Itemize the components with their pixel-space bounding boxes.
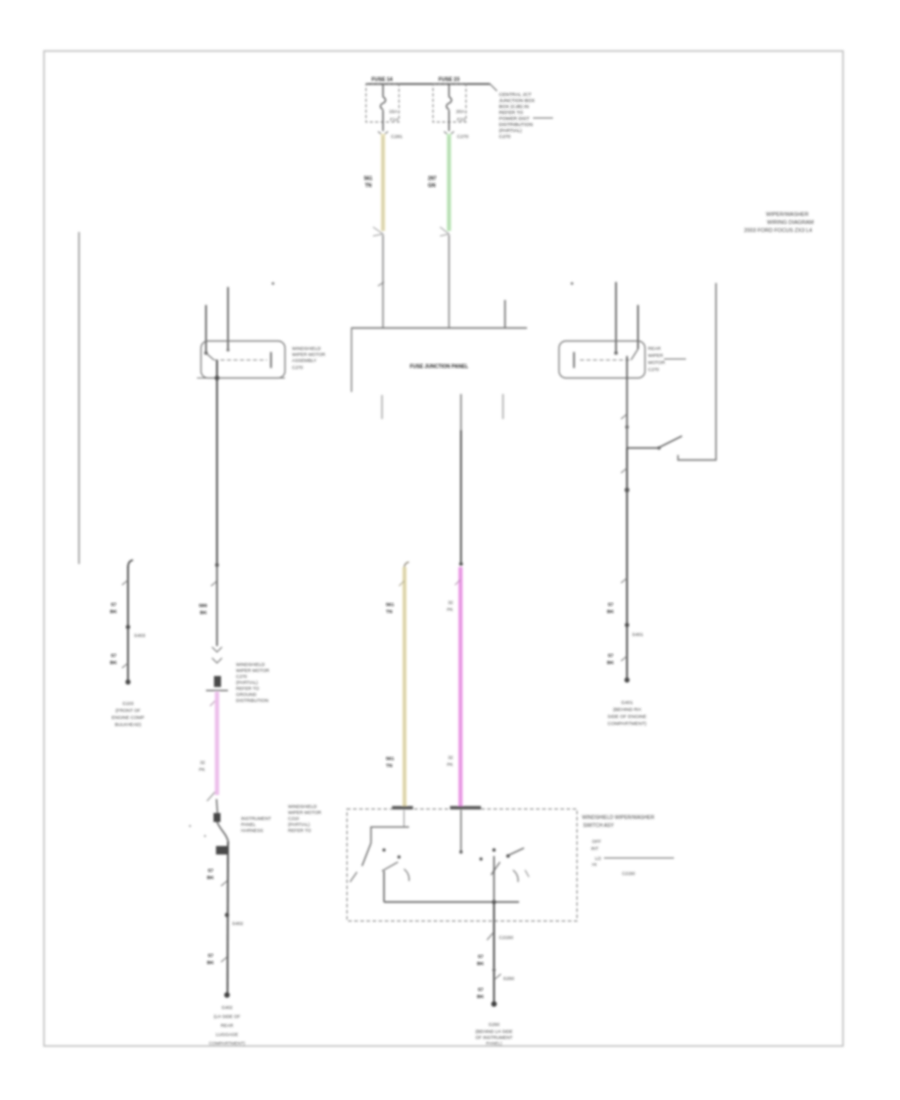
svg-text:S402: S402	[232, 921, 244, 927]
svg-text:WIPER/WASHER: WIPER/WASHER	[766, 212, 809, 218]
motor: windshield wiper motor left	[201, 341, 285, 378]
svg-text:WIPER MOTOR: WIPER MOTOR	[292, 352, 326, 357]
svg-text:57: 57	[478, 987, 484, 993]
svg-text:C270: C270	[236, 674, 247, 679]
svg-text:COMPARTMENT): COMPARTMENT)	[608, 721, 647, 727]
svg-text:BK: BK	[477, 961, 484, 967]
wire: TN wire from fuse F14	[364, 134, 383, 231]
svg-text:C2150: C2150	[622, 871, 635, 876]
tick	[621, 414, 627, 419]
wire markings on right ground run	[607, 578, 644, 683]
svg-text:32: 32	[448, 600, 454, 605]
svg-text:COMPARTMENT): COMPARTMENT)	[209, 1041, 246, 1046]
svg-text:F14: F14	[390, 117, 399, 123]
svg-text:589: 589	[199, 603, 207, 609]
fuse F14	[366, 77, 399, 131]
wire: left motor output with junction	[197, 360, 285, 646]
svg-text:(FRONT OF: (FRONT OF	[116, 708, 141, 713]
svg-text:CENTRAL JCT: CENTRAL JCT	[499, 92, 531, 98]
wire: park switch return tall line	[678, 283, 716, 460]
label: page title right	[744, 212, 814, 234]
svg-text:G103: G103	[122, 701, 134, 706]
label: wiper motor partial note	[288, 804, 322, 833]
switch internals: right wafer	[459, 810, 529, 902]
svg-text:C270: C270	[499, 134, 511, 140]
svg-text:G401: G401	[621, 700, 633, 706]
svg-text:BK: BK	[477, 994, 484, 1000]
svg-text:FUSE 23: FUSE 23	[438, 77, 459, 83]
svg-text:C270: C270	[457, 134, 469, 140]
svg-text:SIDE OF ENGINE: SIDE OF ENGINE	[608, 714, 647, 720]
svg-text:(LH SIDE OF: (LH SIDE OF	[214, 1014, 241, 1019]
svg-text:BK: BK	[607, 660, 614, 666]
svg-text:(PARTIAL): (PARTIAL)	[288, 822, 310, 827]
svg-text:WINDSHIELD: WINDSHIELD	[292, 346, 322, 351]
fuse F23	[433, 77, 466, 131]
wire: long left reference line	[78, 232, 80, 564]
svg-text:ASSEMBLY: ASSEMBLY	[292, 358, 316, 363]
svg-text:LO: LO	[595, 856, 602, 861]
svg-text:WINDSHIELD WIPER/WASHER: WINDSHIELD WIPER/WASHER	[582, 815, 655, 821]
svg-text:G250: G250	[488, 1022, 500, 1027]
svg-text:OFF: OFF	[592, 839, 601, 844]
label: central junction box note	[499, 92, 553, 140]
ground G401	[608, 700, 647, 727]
svg-text:REFER TO: REFER TO	[499, 110, 523, 116]
svg-text:INSTRUMENT: INSTRUMENT	[241, 816, 271, 821]
svg-text:32: 32	[448, 755, 454, 760]
svg-text:SWITCH ASY: SWITCH ASY	[583, 823, 615, 829]
wire: bus lead-in to CJB label	[490, 84, 497, 91]
module: fuse junction panel top line	[351, 300, 527, 392]
svg-text:WIPER MOTOR: WIPER MOTOR	[288, 810, 322, 815]
svg-text:FUSE JUNCTION PANEL: FUSE JUNCTION PANEL	[410, 364, 468, 370]
svg-text:PK: PK	[447, 762, 453, 767]
svg-text:57: 57	[208, 868, 214, 874]
wire: switch ground output	[477, 902, 515, 1007]
svg-text:2003 FORD FOCUS ZX3 L4: 2003 FORD FOCUS ZX3 L4	[744, 228, 812, 234]
svg-text:15A: 15A	[389, 109, 398, 115]
svg-text:REFER TO: REFER TO	[236, 686, 259, 691]
switch internals: left wafer	[350, 810, 409, 882]
svg-text:57: 57	[478, 954, 484, 960]
svg-text:WIRING DIAGRAM: WIRING DIAGRAM	[767, 220, 814, 226]
svg-text:PK: PK	[447, 607, 453, 612]
svg-text:WIPER: WIPER	[648, 353, 664, 358]
svg-text:PANEL: PANEL	[241, 822, 256, 827]
svg-text:POWER DIST: POWER DIST	[499, 116, 529, 122]
svg-text:57: 57	[208, 953, 214, 959]
switch internals: common bus	[384, 871, 519, 904]
svg-text:57: 57	[111, 602, 117, 608]
svg-text:S401: S401	[632, 632, 644, 638]
pin stub 2 below module	[502, 394, 504, 419]
label: right motor	[648, 346, 686, 372]
svg-text:BK: BK	[607, 609, 614, 615]
svg-text:JUNCTION BOX: JUNCTION BOX	[499, 98, 536, 104]
ground G403	[112, 701, 145, 727]
svg-text:ENGINE COMP: ENGINE COMP	[112, 715, 145, 720]
node dot right	[571, 282, 574, 285]
svg-text:BK: BK	[110, 660, 117, 666]
svg-text:HARNESS: HARNESS	[241, 828, 263, 833]
svg-text:BK: BK	[200, 610, 207, 616]
svg-text:C270: C270	[292, 365, 303, 370]
wire: into right motor pin A	[615, 282, 617, 353]
wire: GN wire from fuse F23	[428, 134, 449, 231]
node dot left	[272, 282, 275, 285]
tick on wire	[378, 282, 384, 286]
svg-text:57: 57	[608, 653, 614, 659]
label: connector C270 list	[236, 662, 270, 703]
wire: into left motor pin A	[205, 305, 207, 353]
svg-text:BULKHEAD): BULKHEAD)	[115, 722, 142, 727]
svg-text:LUGGAGE: LUGGAGE	[216, 1032, 238, 1037]
svg-text:WIPER MOTOR: WIPER MOTOR	[236, 668, 270, 673]
svg-text:DISTRIBUTION: DISTRIBUTION	[499, 122, 533, 128]
label: wiper switch	[582, 815, 674, 876]
svg-text:REAR: REAR	[648, 346, 661, 351]
svg-text:S403: S403	[134, 633, 146, 639]
svg-text:BK: BK	[207, 960, 214, 966]
svg-text:WINDSHIELD: WINDSHIELD	[236, 662, 266, 667]
park switch: right	[627, 436, 682, 450]
svg-text:REAR: REAR	[221, 1023, 234, 1028]
wire: into right motor pin B	[637, 305, 639, 349]
svg-text:FUSE 14: FUSE 14	[371, 77, 392, 83]
svg-text:F23: F23	[457, 117, 466, 123]
svg-text:OF INSTRUMENT: OF INSTRUMENT	[476, 1035, 513, 1040]
wire: PK center wire	[447, 567, 461, 809]
svg-text:DISTRIBUTION: DISTRIBUTION	[236, 698, 268, 703]
svg-text:HI: HI	[592, 862, 597, 867]
svg-text:TN: TN	[386, 763, 393, 769]
wire: right ground run	[621, 448, 629, 680]
wire: left small ground branch	[110, 560, 146, 685]
motor: rear wiper motor right	[559, 341, 645, 378]
inline connector on PK wire	[207, 792, 215, 801]
svg-text:GROUND: GROUND	[236, 692, 257, 697]
wire: black continuation to module	[382, 235, 384, 328]
svg-text:PANEL): PANEL)	[486, 1041, 502, 1046]
svg-text:C270: C270	[648, 367, 659, 372]
inline connector on TN wire	[373, 227, 383, 236]
svg-text:INT: INT	[591, 846, 599, 851]
node	[625, 425, 629, 429]
connector C270 below fuse F23	[444, 132, 469, 141]
svg-text:57: 57	[608, 602, 614, 608]
wire: jog to lower-left ground run	[189, 799, 229, 843]
wire: top feed bus	[366, 83, 490, 85]
switch: windshield wiper switch box	[347, 806, 577, 921]
svg-text:C2150: C2150	[499, 935, 513, 941]
wire markings on left main run	[199, 563, 228, 690]
wire: lower-left ground run	[207, 842, 244, 998]
svg-text:TN: TN	[386, 609, 393, 615]
wire: right motor output	[626, 356, 628, 448]
svg-text:GN: GN	[428, 183, 436, 189]
svg-text:(BEHIND LH SIDE: (BEHIND LH SIDE	[475, 1029, 512, 1034]
svg-text:TN: TN	[365, 183, 372, 189]
ground G250	[475, 1022, 512, 1046]
pin stub 1 below module	[381, 395, 383, 419]
label: instrument panel note	[241, 816, 271, 833]
connector C281 below fuse F14	[378, 132, 403, 141]
svg-text:561: 561	[386, 756, 394, 762]
inline connector on GN wire	[440, 227, 449, 236]
svg-text:(PARTIAL): (PARTIAL)	[499, 128, 522, 134]
svg-text:C210: C210	[288, 816, 299, 821]
svg-text:20A: 20A	[456, 109, 465, 115]
svg-text:WINDSHIELD: WINDSHIELD	[288, 804, 318, 809]
svg-text:(BEHIND RH: (BEHIND RH	[613, 707, 642, 713]
wire: center run from module	[459, 394, 463, 566]
label: left motor	[292, 346, 326, 370]
svg-text:PK: PK	[199, 767, 205, 772]
svg-text:BK: BK	[110, 609, 117, 615]
wire: into left motor pin B	[227, 287, 229, 350]
svg-text:32: 32	[200, 760, 206, 765]
svg-text:57: 57	[111, 653, 117, 659]
svg-text:561: 561	[364, 176, 373, 182]
svg-text:BK: BK	[207, 875, 214, 881]
ground G402	[209, 1005, 246, 1046]
svg-text:(PARTIAL): (PARTIAL)	[236, 680, 258, 685]
svg-text:C281: C281	[391, 134, 403, 140]
svg-text:561: 561	[386, 602, 394, 608]
svg-text:S250: S250	[503, 976, 515, 982]
svg-text:REFER TO: REFER TO	[288, 828, 311, 833]
svg-text:G402: G402	[221, 1005, 233, 1010]
svg-text:BOX (CJB) IN: BOX (CJB) IN	[499, 104, 529, 110]
wire: TN wire to switch	[386, 562, 409, 809]
wire: black continuation to module	[448, 235, 450, 328]
wire: PK wire left lower	[199, 692, 217, 795]
svg-text:MOTOR: MOTOR	[648, 360, 666, 365]
svg-text:297: 297	[428, 176, 437, 182]
